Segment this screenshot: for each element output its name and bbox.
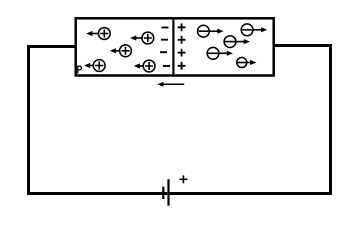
depletion plus sign 2 (178, 36, 186, 44)
depletion plus sign 1 (178, 23, 186, 31)
junction line between P and N regions (172, 20, 174, 75)
wire bottom right segment from battery (170, 192, 332, 195)
electron E5 with right arrow (237, 58, 256, 68)
P region label (78, 66, 82, 73)
depletion plus sign 3 (178, 49, 186, 57)
wire bottom left segment to battery (27, 192, 167, 195)
wire left vertical rail (27, 45, 30, 195)
battery B1 negative plate (short) (162, 187, 164, 199)
electron E2 with right arrow (241, 24, 267, 36)
depletion minus sign 1 (162, 27, 169, 29)
wire right vertical rail (329, 44, 332, 195)
hole H1 with left arrow (86, 28, 110, 40)
hole H2 with left arrow (130, 32, 154, 44)
battery B1 plus label (180, 175, 188, 183)
depletion minus sign 2 (161, 39, 168, 41)
depletion minus sign 4 (163, 65, 170, 67)
electron E4 with right arrow (207, 47, 233, 59)
hole H5 with left arrow (134, 60, 155, 72)
electron E1 with right arrow (198, 25, 224, 37)
hole H3 with left arrow (110, 45, 132, 57)
semiconductor body rectangle (76, 18, 274, 75)
hole H4 with left arrow (84, 60, 105, 72)
electron E3 with right arrow (224, 36, 250, 48)
battery B1 positive plate (long) (167, 179, 169, 206)
wire right lead from right rail to N region (274, 44, 332, 47)
depletion minus sign 3 (160, 51, 167, 53)
depletion plus sign 4 (178, 62, 186, 70)
current direction arrow below body (pointing left) (157, 82, 184, 87)
wire left lead from P region to left rail (27, 45, 75, 48)
